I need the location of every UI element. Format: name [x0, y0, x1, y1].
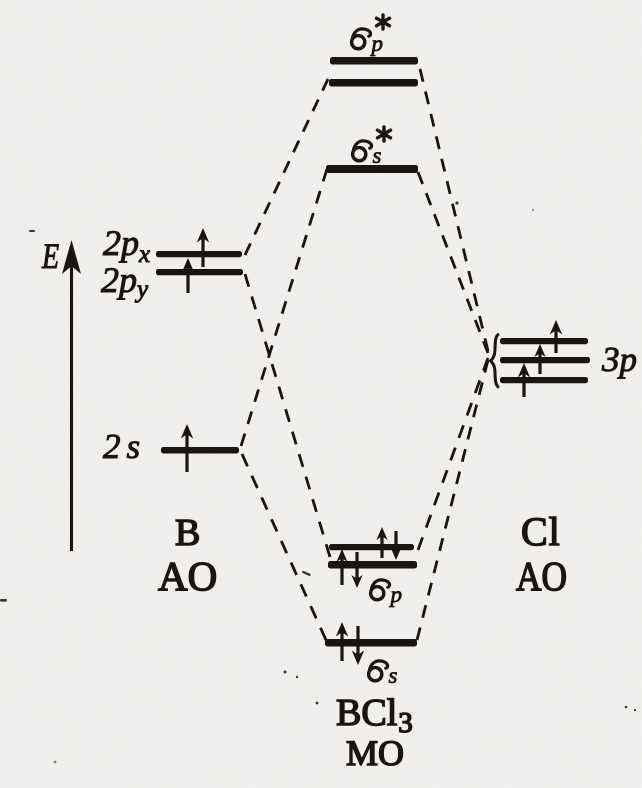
electron arrow up on sigma-p lower — [336, 549, 347, 585]
dashed line 3p to sigma-s — [417, 360, 488, 640]
electron arrow up on 3p lower — [518, 363, 530, 397]
svg-text:Cl: Cl — [521, 509, 561, 554]
svg-text:p: p — [370, 31, 384, 56]
electron arrow up on sigma-s — [336, 622, 348, 661]
dashed line sigma-s-star to 3p — [418, 172, 488, 353]
electron arrow up on 2py — [182, 258, 193, 293]
dashed line sigma-p-star to 3p — [420, 69, 488, 351]
level 2py of B — [156, 269, 243, 275]
electron arrow up on 3p middle — [534, 344, 545, 374]
label sigma-s-star — [353, 127, 391, 168]
svg-text:p: p — [389, 582, 403, 607]
electron arrow down on sigma-p upper — [390, 531, 401, 560]
level sigma-p lower — [328, 561, 417, 569]
level sigma-s-star — [326, 165, 418, 173]
label sigma-p bonding — [371, 580, 402, 607]
dashed line 2p to sigma-p — [245, 274, 330, 557]
energy axis arrow — [62, 240, 81, 551]
label sigma-p-star — [352, 15, 390, 56]
svg-text:MO: MO — [346, 733, 404, 773]
electron arrow up on 2s — [181, 424, 193, 472]
svg-text:3p: 3p — [601, 340, 637, 379]
svg-text:AO: AO — [516, 553, 567, 599]
level 3p upper of Cl — [500, 338, 588, 344]
svg-text:s: s — [373, 143, 382, 168]
dashed line 2s to sigma-s — [242, 454, 326, 640]
dashed line 2s to sigma-s-star — [241, 169, 327, 446]
level 3p middle of Cl — [500, 357, 590, 363]
svg-text:AO: AO — [158, 553, 217, 599]
electron arrow up on sigma-p upper — [376, 527, 387, 558]
level sigma-p upper — [329, 544, 414, 550]
level 3p lower of Cl — [500, 377, 588, 383]
level sigma-p-star upper — [330, 57, 418, 65]
electron arrow down on sigma-p lower — [351, 552, 362, 588]
svg-text:B: B — [175, 512, 200, 554]
dashed line 2p to sigma-p-star — [245, 79, 328, 255]
level sigma-p-star lower — [329, 79, 418, 87]
level 2px of B — [156, 251, 242, 257]
level sigma-s — [325, 639, 417, 647]
electron arrow up on 3p upper — [550, 320, 562, 353]
electron arrow up on 2px — [197, 228, 209, 267]
brace joining 3p levels — [491, 334, 499, 388]
label sigma-s bonding — [369, 661, 398, 688]
level 2s of B — [161, 447, 239, 454]
scan specks — [0, 201, 636, 763]
svg-text:s: s — [389, 663, 398, 688]
electron arrow down on sigma-s — [352, 626, 364, 665]
svg-text:E: E — [41, 236, 59, 276]
paper texture — [0, 0, 1, 1]
dashed line 3p to sigma-p — [418, 358, 488, 550]
svg-text:2s: 2s — [103, 427, 146, 466]
